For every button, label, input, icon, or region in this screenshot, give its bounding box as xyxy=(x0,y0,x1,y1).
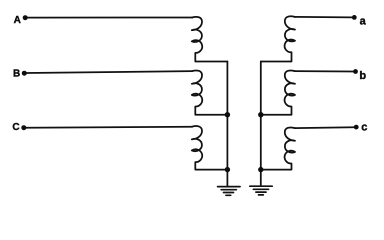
label b xyxy=(359,70,366,82)
label C xyxy=(12,122,19,133)
terminal c xyxy=(354,125,359,130)
svg-text:a: a xyxy=(360,16,367,28)
junction primary neutral / phase B xyxy=(225,112,230,117)
junction primary neutral / phase C xyxy=(225,167,230,172)
terminal b xyxy=(353,69,358,74)
terminal a xyxy=(352,15,357,20)
terminal C xyxy=(21,125,26,130)
wire B (terminal B to primary winding) xyxy=(26,71,192,73)
wire c (secondary winding to terminal c) xyxy=(295,126,355,129)
inductor primary winding phase C xyxy=(192,126,228,170)
inductor secondary winding phase a xyxy=(261,16,295,61)
terminal B xyxy=(22,71,27,76)
svg-text:b: b xyxy=(359,70,366,82)
inductor secondary winding phase c xyxy=(261,127,295,169)
svg-text:A: A xyxy=(14,15,21,26)
wire b (secondary winding to terminal b) xyxy=(295,70,354,72)
ground (secondary neutral) xyxy=(250,186,272,195)
wire C (terminal C to primary winding) xyxy=(26,127,193,128)
terminal A xyxy=(23,15,28,20)
inductor secondary winding phase b xyxy=(261,70,295,114)
junction secondary neutral / phase c xyxy=(258,167,263,172)
ground (primary neutral) xyxy=(218,187,240,196)
svg-text:C: C xyxy=(12,122,19,133)
inductor primary winding phase A xyxy=(192,17,228,62)
wire A (terminal A to primary winding) xyxy=(27,17,192,19)
primary neutral bus wire xyxy=(226,62,228,186)
svg-text:B: B xyxy=(13,68,20,79)
label c xyxy=(361,122,367,134)
secondary neutral bus wire xyxy=(260,62,262,186)
label A xyxy=(14,15,21,26)
inductor primary winding phase B xyxy=(192,70,228,114)
junction secondary neutral / phase b xyxy=(258,112,263,117)
wire a (secondary winding to terminal a) xyxy=(295,16,353,19)
label B xyxy=(13,68,20,79)
label a xyxy=(360,16,367,28)
svg-text:c: c xyxy=(361,122,367,134)
